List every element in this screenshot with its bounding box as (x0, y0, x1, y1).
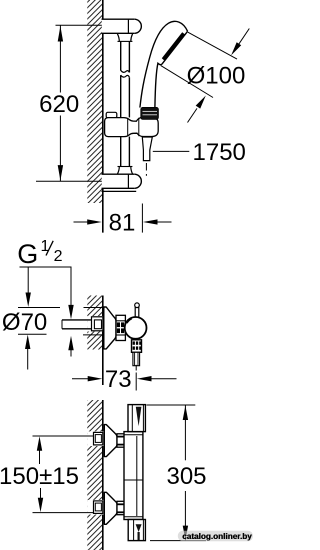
svg-text:1750: 1750 (193, 139, 246, 166)
svg-text:catalog.onliner.by: catalog.onliner.by (182, 532, 252, 541)
svg-text:620: 620 (39, 91, 79, 118)
svg-text:G: G (17, 239, 38, 269)
svg-text:Ø70: Ø70 (2, 309, 47, 336)
svg-text:305: 305 (166, 463, 206, 490)
svg-text:81: 81 (109, 209, 136, 236)
svg-text:150±15: 150±15 (0, 463, 79, 490)
svg-text:Ø100: Ø100 (187, 62, 246, 89)
svg-text:73: 73 (105, 366, 132, 393)
svg-text:2: 2 (54, 248, 63, 265)
